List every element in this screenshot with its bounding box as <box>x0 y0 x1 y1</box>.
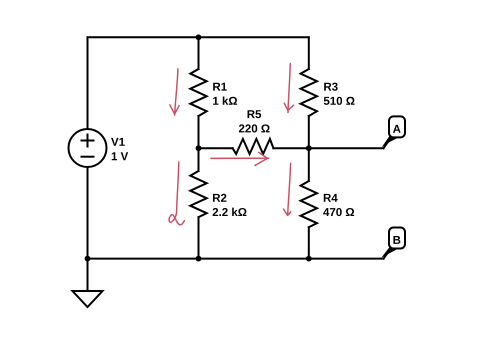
V1 minus sign <box>82 156 94 158</box>
wire R3 bottom lead <box>308 116 310 148</box>
junction node bottom-left (ground tap) <box>85 256 91 262</box>
label R4 <box>324 194 338 202</box>
resistor R5 <box>233 139 274 154</box>
value 2.2 kOhm <box>213 208 247 216</box>
label R1 <box>213 83 227 91</box>
annotation arrow at R2 (scribbled head) <box>169 162 184 225</box>
annotation arrow at R5 <box>211 157 269 159</box>
flag label B <box>393 236 400 244</box>
junction node top (R1/top wire) <box>196 34 202 40</box>
wire top horizontal <box>88 36 309 38</box>
flag label A <box>393 125 401 133</box>
wire diagonal to flag B <box>384 250 391 259</box>
junction node mid-right (R3/R4/R5/A) <box>306 145 312 151</box>
wire R5 right lead to node A tap <box>273 147 383 149</box>
resistor R2 <box>190 171 206 217</box>
value 220 Ohm <box>239 124 270 132</box>
value 470 Ohm <box>323 208 354 216</box>
junction node mid-left (R1/R2/R5) <box>196 145 202 151</box>
flag A pointer <box>382 136 398 147</box>
label R2 <box>213 194 226 202</box>
wire R2 bottom lead <box>198 217 200 258</box>
ground <box>73 291 103 307</box>
wire bottom horizontal <box>88 258 384 260</box>
flag A box <box>389 116 405 137</box>
voltage source V1 <box>69 129 107 167</box>
value 1 V <box>112 152 128 160</box>
wire left vertical upper (V1 top lead) <box>87 37 89 129</box>
wire R5 left lead <box>199 147 233 149</box>
V1 plus sign <box>82 135 94 147</box>
label R5 <box>248 110 262 118</box>
value 510 Ohm <box>324 97 355 105</box>
resistor R3 <box>301 69 317 116</box>
label R3 <box>324 83 338 91</box>
wire ground lead <box>87 259 89 291</box>
wire R1 top lead <box>198 37 200 69</box>
wire R1 bottom lead <box>198 116 200 148</box>
flag B pointer <box>381 247 397 258</box>
resistor R1 <box>190 69 206 116</box>
wire diagonal to flag A <box>384 139 391 148</box>
label V1 <box>111 138 125 146</box>
annotation arrow at R4 <box>288 163 291 215</box>
annotation arrow at R3 <box>288 64 290 113</box>
junction node bottom-right (R4/bottom wire) <box>306 256 312 262</box>
annotation arrow at R1 <box>175 69 178 115</box>
resistor R4 <box>301 181 317 227</box>
value 1 kOhm <box>213 96 237 104</box>
wire R2 top lead <box>198 148 200 171</box>
flag B box <box>389 228 405 249</box>
wire R3 top lead <box>308 37 310 69</box>
wire R4 top lead <box>308 148 310 181</box>
junction node bottom-mid (R2/bottom wire) <box>196 256 202 262</box>
wire R4 bottom lead <box>308 227 310 258</box>
wire left vertical lower (V1 bottom lead) <box>87 167 89 259</box>
